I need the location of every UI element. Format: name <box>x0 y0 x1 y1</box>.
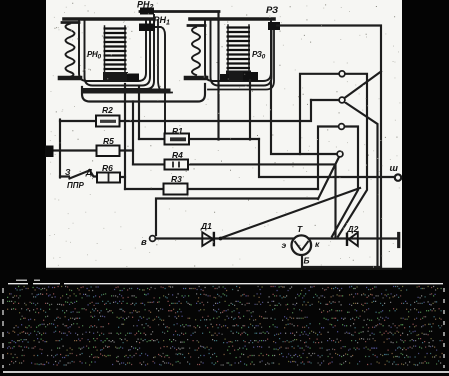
svg-text:З: З <box>65 167 71 177</box>
svg-text:R1: R1 <box>172 126 183 136</box>
svg-text:Т: Т <box>297 224 303 234</box>
svg-text:R3: R3 <box>171 174 182 184</box>
svg-text:ППР: ППР <box>67 181 85 190</box>
svg-text:R5: R5 <box>103 136 114 146</box>
svg-text:Б: Б <box>304 256 310 266</box>
svg-text:РЗ: РЗ <box>266 5 278 16</box>
svg-text:в: в <box>141 237 147 248</box>
svg-text:Д: Д <box>85 167 92 177</box>
svg-text:Д1: Д1 <box>200 221 212 231</box>
svg-text:R4: R4 <box>172 150 183 160</box>
svg-text:Д2: Д2 <box>347 224 359 234</box>
svg-text:R2: R2 <box>102 105 113 115</box>
svg-text:э: э <box>282 240 287 250</box>
svg-text:R6: R6 <box>102 163 113 173</box>
svg-text:к: к <box>315 239 320 249</box>
svg-text:ш: ш <box>390 163 399 174</box>
